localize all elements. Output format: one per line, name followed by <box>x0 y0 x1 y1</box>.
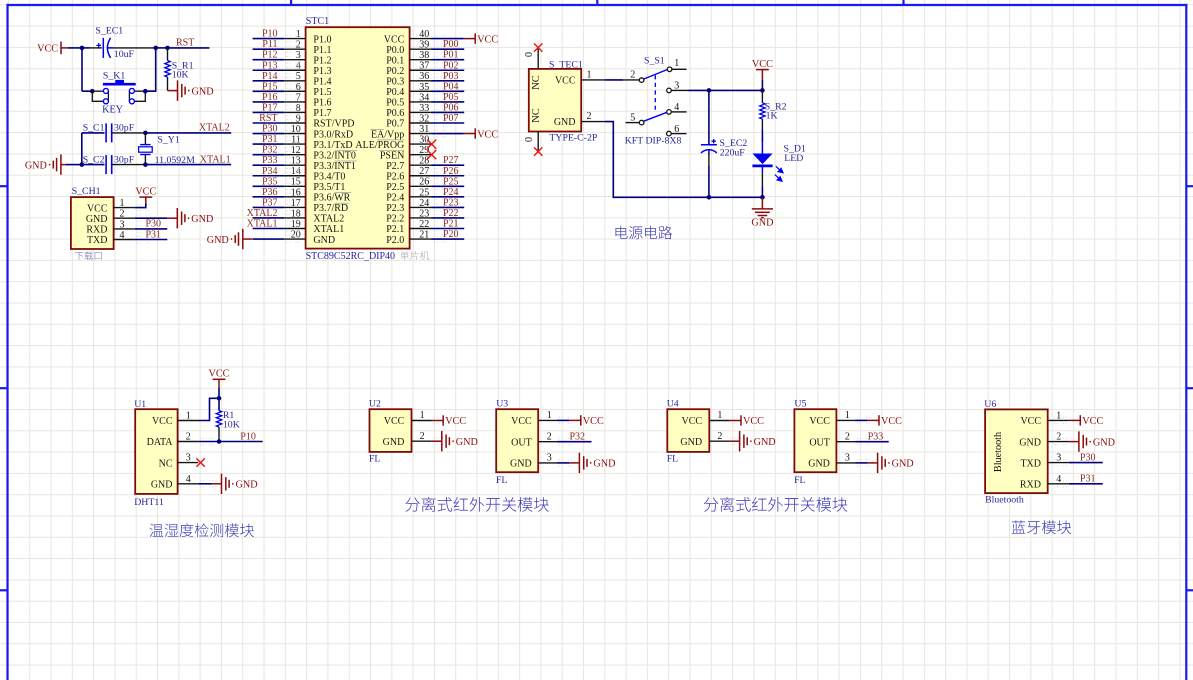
svg-text:VCC: VCC <box>511 416 532 427</box>
caption bluetooth module <box>1012 520 1072 534</box>
svg-text:1K: 1K <box>766 111 778 122</box>
svg-text:0: 0 <box>524 137 535 142</box>
svg-text:Bluetooth: Bluetooth <box>993 432 1004 472</box>
svg-text:XTAL1: XTAL1 <box>313 224 344 235</box>
svg-text:GND: GND <box>25 160 47 171</box>
mcu right wires nets P27-P20 <box>432 165 465 239</box>
svg-text:P34: P34 <box>262 166 278 177</box>
svg-text:P05: P05 <box>443 92 459 103</box>
wire net P30 (S_CH1) <box>135 228 168 230</box>
svg-text:RXD: RXD <box>1020 480 1041 491</box>
svg-text:GND: GND <box>593 459 615 470</box>
svg-text:TYPE-C-2P: TYPE-C-2P <box>549 133 597 144</box>
switch S_S1 KFT DIP-8X8 <box>623 67 688 136</box>
svg-text:VCC: VCC <box>384 416 405 427</box>
wire net XTAL1 <box>145 164 231 166</box>
svg-text:2: 2 <box>630 70 635 81</box>
svg-text:P17: P17 <box>262 102 278 113</box>
mcu net labels P27-P20 <box>443 155 459 240</box>
svg-text:VCC: VCC <box>682 416 703 427</box>
svg-text:VCC: VCC <box>37 43 58 54</box>
svg-text:XTAL1: XTAL1 <box>247 219 278 230</box>
svg-text:P0.2: P0.2 <box>386 66 404 77</box>
wire net P31 (U6 RXD) <box>1069 483 1103 485</box>
no connect X mcu pin30 <box>427 140 436 149</box>
connector S_TEC1 TYPE-C-2P body <box>529 69 581 132</box>
svg-text:2: 2 <box>587 111 592 122</box>
svg-text:P23: P23 <box>443 197 459 208</box>
svg-text:P1.2: P1.2 <box>313 55 331 66</box>
module U3 FL body <box>496 409 538 472</box>
caption temperature humidity module <box>149 523 254 537</box>
svg-text:XTAL2: XTAL2 <box>247 208 278 219</box>
svg-text:P32: P32 <box>262 145 278 156</box>
capacitor S_C2 30pF <box>106 155 112 174</box>
wire U5 pin1 to VCC <box>855 419 868 421</box>
wire S_R1 to ground <box>167 77 169 91</box>
svg-text:P14: P14 <box>262 71 278 82</box>
svg-text:KFT DIP-8X8: KFT DIP-8X8 <box>625 135 682 146</box>
svg-text:VCC: VCC <box>135 187 156 198</box>
svg-text:P3.2/INT0: P3.2/INT0 <box>313 150 356 161</box>
svg-text:S_K1: S_K1 <box>103 70 125 81</box>
ground GND (reset circuit) <box>168 80 190 100</box>
wire switch pin3 to VCC rail <box>688 89 762 91</box>
wire S_C2 to node XTAL1 <box>112 164 146 166</box>
caption infrared switch module 2 <box>704 497 848 512</box>
ground GND (power circuit) <box>752 197 773 217</box>
svg-text:FL: FL <box>794 475 805 486</box>
sensor U1 pin stubs <box>178 421 215 488</box>
wire S_TEC1 GND to bottom rail <box>605 122 763 198</box>
svg-text:RXD: RXD <box>86 225 107 236</box>
svg-text:VCC: VCC <box>555 75 576 86</box>
mcu STC1 right pin numbers 40-21 <box>419 29 429 240</box>
node C junction <box>165 46 170 51</box>
module U5 FL body <box>794 409 836 472</box>
ground GND (DHT11) <box>212 474 234 494</box>
wire GND to crystal junction <box>66 164 82 166</box>
node XTAL2 junction <box>143 131 148 136</box>
wire net P32 (U3 OUT) <box>557 441 592 443</box>
no connect X mcu pin29 <box>427 150 436 159</box>
wire S_TEC1 VCC to switch pin2 <box>605 79 623 81</box>
svg-text:GND: GND <box>808 459 830 470</box>
svg-text:P2.6: P2.6 <box>386 171 404 182</box>
svg-text:P01: P01 <box>443 50 459 61</box>
svg-text:P3.3/INT1: P3.3/INT1 <box>313 161 356 172</box>
crystal lower junction node <box>80 162 85 167</box>
svg-text:1: 1 <box>845 410 850 421</box>
wire junction A to capacitor S_EC1 <box>82 47 90 49</box>
svg-text:GND: GND <box>456 437 478 448</box>
module U2 pin stubs <box>412 417 449 444</box>
node R2 top junction <box>760 88 765 93</box>
svg-text:P2.7: P2.7 <box>386 161 404 172</box>
svg-text:P27: P27 <box>443 155 459 166</box>
wire junction A down to key <box>81 48 83 91</box>
capacitor S_EC1 10uF polarized <box>96 38 113 58</box>
svg-text:U2: U2 <box>369 398 381 409</box>
power port VCC (DHT11) <box>213 379 226 387</box>
wire key to node B riser <box>145 48 155 91</box>
svg-text:XTAL2: XTAL2 <box>199 123 230 134</box>
svg-text:GND: GND <box>236 480 258 491</box>
svg-text:VCC: VCC <box>752 59 773 70</box>
sensor U1 pin numbers 1-4 <box>186 411 191 485</box>
module U6 Bluetooth body <box>985 409 1048 493</box>
sensor U1 DHT11 body <box>135 409 177 494</box>
svg-text:NC: NC <box>531 75 542 90</box>
svg-text:2: 2 <box>547 432 552 443</box>
svg-text:P10: P10 <box>240 431 256 442</box>
wire VCC to R2 junction <box>761 80 763 91</box>
crystal S_Y1 11.0592M <box>139 133 153 165</box>
svg-text:GND: GND <box>754 437 776 448</box>
module U5 pin numbers 1-3 <box>845 410 850 464</box>
svg-text:2: 2 <box>845 432 850 443</box>
svg-text:P3.4/T0: P3.4/T0 <box>313 171 345 182</box>
svg-text:S_CH1: S_CH1 <box>72 186 101 197</box>
resistor R1 10K pullup <box>218 398 220 410</box>
svg-text:P31: P31 <box>1080 473 1096 484</box>
svg-text:P11: P11 <box>262 39 277 50</box>
svg-text:P1.0: P1.0 <box>313 34 331 45</box>
mcu STC1 body STC89C52RC_DIP40 <box>306 27 410 248</box>
svg-text:S_EC1: S_EC1 <box>95 26 123 37</box>
svg-text:P3.0/RxD: P3.0/RxD <box>313 129 353 140</box>
ground GND (U5) <box>868 453 890 473</box>
wire R1 to DATA net <box>218 427 220 442</box>
key right junction <box>143 89 148 94</box>
power port VCC (U6) <box>1069 415 1080 425</box>
connector S_TEC1 top NC pin <box>537 49 539 69</box>
svg-text:3: 3 <box>845 453 850 464</box>
svg-text:P2.4: P2.4 <box>386 193 404 204</box>
node EC2 bottom junction <box>707 195 712 200</box>
svg-text:LED: LED <box>784 153 803 164</box>
connector S_TEC1 bottom NC pin <box>537 132 539 151</box>
svg-text:GND: GND <box>383 437 405 448</box>
svg-text:VCC: VCC <box>87 203 108 214</box>
mcu STC1 left pin numbers 1-20 <box>291 29 301 240</box>
svg-text:S_C1: S_C1 <box>83 123 105 134</box>
svg-text:VCC: VCC <box>583 416 604 427</box>
svg-text:STC1: STC1 <box>306 16 329 27</box>
power port VCC (mcu pin31) <box>464 128 475 138</box>
ground GND (U6) <box>1069 431 1091 451</box>
node XTAL1 junction <box>143 162 148 167</box>
svg-text:P3.5/T1: P3.5/T1 <box>313 182 345 193</box>
connector S_CH1 pin stubs <box>114 204 151 242</box>
svg-text:P13: P13 <box>262 60 278 71</box>
module U3 pin names <box>510 416 532 470</box>
svg-text:P30: P30 <box>146 219 162 230</box>
svg-text:P32: P32 <box>570 431 586 442</box>
module U6 pin numbers 1-4 <box>1056 410 1061 484</box>
svg-text:2: 2 <box>717 431 722 442</box>
push button S_K1 KEY <box>92 80 145 104</box>
wire S_EC1 to node B <box>114 47 156 49</box>
power port VCC (mcu pin40) <box>464 33 475 43</box>
svg-text:VCC: VCC <box>743 416 764 427</box>
svg-text:GND: GND <box>151 480 173 491</box>
svg-text:U4: U4 <box>667 398 679 409</box>
wire riser to XTAL2 row <box>81 133 83 165</box>
svg-text:P0.4: P0.4 <box>386 87 404 98</box>
capacitor S_EC2 220uF polarized <box>701 139 717 155</box>
power port VCC (reset circuit) <box>61 42 68 55</box>
svg-text:P15: P15 <box>262 81 278 92</box>
svg-text:DHT11: DHT11 <box>134 497 164 508</box>
svg-text:P30: P30 <box>262 124 278 135</box>
wire to key left contact <box>82 90 92 92</box>
mcu right wires nets P00-P07 <box>432 49 465 123</box>
svg-text:TXD: TXD <box>1020 458 1041 469</box>
svg-text:1: 1 <box>674 58 679 69</box>
resistor S_R1 10K <box>165 61 170 78</box>
mcu STC1 left pin stubs <box>284 35 305 242</box>
wire junction to capacitor S_C2 <box>82 164 105 166</box>
sensor U1 pin names <box>147 416 174 490</box>
svg-text:P1.3: P1.3 <box>313 66 331 77</box>
mcu STC1 right pin stubs <box>410 35 448 242</box>
no connect X U1 pin3 <box>196 458 204 466</box>
svg-text:GND: GND <box>680 437 702 448</box>
svg-text:1: 1 <box>547 410 552 421</box>
svg-text:P20: P20 <box>443 229 459 240</box>
node DATA junction <box>217 439 222 444</box>
mcu STC1 right pin names <box>355 34 404 245</box>
wire node C to net RST <box>168 47 210 49</box>
svg-text:GND: GND <box>751 218 773 229</box>
node LED bottom junction <box>760 195 765 200</box>
svg-text:GND: GND <box>313 235 335 246</box>
svg-text:P21: P21 <box>443 219 459 230</box>
svg-text:P0.7: P0.7 <box>386 119 404 130</box>
ground GND (U2) <box>432 431 454 451</box>
ground GND (mcu pin20) <box>231 229 253 249</box>
svg-text:10uF: 10uF <box>114 49 135 60</box>
module U3 pin stubs <box>538 417 573 466</box>
wire EC2 bottom to rail <box>708 153 710 166</box>
power port VCC (S_CH1) <box>139 197 152 204</box>
svg-text:P07: P07 <box>443 113 459 124</box>
svg-text:VCC: VCC <box>384 34 405 45</box>
svg-text:VCC: VCC <box>1082 416 1103 427</box>
ground GND (crystal circuit) <box>49 154 67 174</box>
ground GND (U4) <box>730 431 752 451</box>
wire net P10 (DHT11 DATA) <box>198 441 263 443</box>
wire LED to bottom rail <box>761 173 763 187</box>
svg-text:P10: P10 <box>262 29 278 40</box>
power port VCC (power circuit) <box>756 70 769 80</box>
wire node B to node C <box>156 47 168 49</box>
svg-text:VCC: VCC <box>1020 416 1041 427</box>
wire to capacitor S_C1 <box>82 132 105 134</box>
svg-text:GND: GND <box>892 459 914 470</box>
svg-text:P22: P22 <box>443 208 459 219</box>
module U6 pin names <box>1019 416 1041 490</box>
svg-text:P0.0: P0.0 <box>386 45 404 56</box>
svg-text:GND: GND <box>1019 437 1041 448</box>
module U5 pin names <box>808 416 830 470</box>
connector S_CH1 pin numbers 1-4 <box>120 198 125 241</box>
no connect X S_TEC1 bottom <box>534 147 542 155</box>
svg-text:P12: P12 <box>262 50 278 61</box>
connector S_TEC1 pin stubs <box>581 79 605 81</box>
key left junction <box>90 89 95 94</box>
resistor S_R2 1K <box>760 103 765 119</box>
module U3 pin numbers 1-3 <box>547 410 552 464</box>
svg-text:P2.2: P2.2 <box>386 214 404 225</box>
caption microcontroller <box>400 251 429 260</box>
wire S_R2 to LED <box>761 119 763 130</box>
svg-text:P1.6: P1.6 <box>313 98 331 109</box>
module U2 FL body <box>370 409 412 452</box>
module U5 pin stubs <box>836 417 871 466</box>
svg-text:P04: P04 <box>443 81 459 92</box>
svg-text:1: 1 <box>587 70 592 81</box>
svg-text:P3.1/TxD: P3.1/TxD <box>313 140 352 151</box>
svg-text:S_C2: S_C2 <box>83 155 105 166</box>
svg-text:TXD: TXD <box>87 235 108 246</box>
svg-text:1: 1 <box>420 410 425 421</box>
svg-text:DATA: DATA <box>147 437 174 448</box>
svg-text:5: 5 <box>630 112 635 123</box>
node R1 top junction <box>217 396 222 401</box>
svg-text:NC: NC <box>159 458 173 469</box>
wire mcu pin31 EA to VCC <box>432 133 464 135</box>
wire EC2 branch down <box>708 90 710 144</box>
module U4 FL body <box>667 409 709 452</box>
connector S_TEC1 pin names NC NC VCC GND <box>531 75 542 123</box>
connector S_CH1 pin names <box>86 203 108 246</box>
svg-text:VCC: VCC <box>209 369 230 380</box>
svg-text:KEY: KEY <box>102 104 124 115</box>
svg-text:3: 3 <box>674 81 679 92</box>
node B junction <box>153 46 158 51</box>
svg-text:VCC: VCC <box>477 34 498 45</box>
svg-text:VCC: VCC <box>881 416 902 427</box>
svg-text:220uF: 220uF <box>720 147 746 158</box>
wire net XTAL2 <box>145 132 231 134</box>
wire net P31 (S_CH1) <box>135 239 168 241</box>
wire net P30 (U6 TXD) <box>1069 462 1103 464</box>
svg-text:P1.1: P1.1 <box>313 45 331 56</box>
svg-text:P26: P26 <box>443 166 459 177</box>
wire mcu pin20 GND <box>253 238 284 240</box>
svg-text:P03: P03 <box>443 71 459 82</box>
svg-text:U3: U3 <box>496 398 508 409</box>
svg-text:GND: GND <box>207 235 229 246</box>
svg-text:P31: P31 <box>146 229 162 240</box>
svg-text:OUT: OUT <box>809 437 830 448</box>
svg-text:4: 4 <box>674 102 679 113</box>
svg-text:NC: NC <box>531 108 542 123</box>
mcu STC1 left pin names <box>313 34 356 245</box>
svg-text:P0.3: P0.3 <box>386 77 404 88</box>
svg-text:XTAL2: XTAL2 <box>313 214 344 225</box>
svg-text:S_S1: S_S1 <box>644 55 665 66</box>
caption power supply circuit <box>615 226 672 239</box>
node EC2 top junction <box>707 88 712 93</box>
power port VCC (U5) <box>868 415 879 425</box>
svg-text:P0.1: P0.1 <box>386 55 404 66</box>
svg-text:U5: U5 <box>794 398 806 409</box>
svg-text:P2.1: P2.1 <box>386 224 404 235</box>
wire pin1 to VCC port <box>135 203 146 208</box>
svg-text:P02: P02 <box>443 60 459 71</box>
svg-text:P16: P16 <box>262 92 278 103</box>
svg-text:GND: GND <box>86 214 108 225</box>
svg-text:STC89C52RC_DIP40: STC89C52RC_DIP40 <box>306 251 395 262</box>
svg-text:VCC: VCC <box>477 129 498 140</box>
svg-text:GND: GND <box>510 459 532 470</box>
capacitor S_C1 30pF <box>106 123 112 142</box>
svg-text:P3.6/WR: P3.6/WR <box>313 193 350 204</box>
resistor S_R2 top lead <box>761 90 763 103</box>
caption download port <box>75 251 102 260</box>
svg-text:P1.7: P1.7 <box>313 108 331 119</box>
svg-text:3: 3 <box>547 453 552 464</box>
module U2 pin names <box>383 416 405 448</box>
svg-text:10K: 10K <box>223 419 240 430</box>
svg-text:GND: GND <box>1093 437 1115 448</box>
no connect X S_TEC1 top <box>534 43 542 51</box>
ground GND (U3) <box>569 453 591 473</box>
ground GND (S_CH1) <box>167 208 189 228</box>
wire U3 pin1 to VCC <box>557 419 570 421</box>
svg-text:P37: P37 <box>262 197 278 208</box>
svg-text:P2.0: P2.0 <box>386 235 404 246</box>
caption infrared switch module 1 <box>405 497 549 512</box>
svg-text:2: 2 <box>420 431 425 442</box>
svg-text:RST: RST <box>176 38 194 49</box>
module U4 pin names <box>680 416 702 448</box>
svg-text:VCC: VCC <box>152 416 173 427</box>
svg-text:10K: 10K <box>172 70 189 81</box>
wire VCC to R1 junction <box>218 387 220 398</box>
svg-text:P1.4: P1.4 <box>313 77 331 88</box>
svg-text:30pF: 30pF <box>114 123 135 134</box>
module U4 pin stubs <box>709 417 746 444</box>
svg-text:P35: P35 <box>262 176 278 187</box>
wire junction to U1 pin1 <box>201 398 219 420</box>
svg-text:P31: P31 <box>262 134 278 145</box>
svg-text:P33: P33 <box>262 155 278 166</box>
node A junction <box>80 46 85 51</box>
power port VCC (U4) <box>730 415 741 425</box>
mcu left wires nets P10-P17 RST P30-P37 XTAL1 XTAL2 <box>253 39 285 229</box>
module U2 pin numbers 1-2 <box>420 410 425 442</box>
wire VCC to junction A <box>68 47 82 49</box>
wire mcu pin40 to VCC <box>432 38 464 40</box>
svg-text:FL: FL <box>496 475 507 486</box>
svg-text:GND: GND <box>191 214 213 225</box>
resistor S_R1 top lead <box>167 48 169 61</box>
svg-text:P0.5: P0.5 <box>386 98 404 109</box>
svg-text:FL: FL <box>369 453 380 464</box>
svg-text:VCC: VCC <box>445 416 466 427</box>
power port VCC (U2) <box>432 415 443 425</box>
svg-text:RST/VPD: RST/VPD <box>313 119 354 130</box>
svg-text:6: 6 <box>674 124 679 135</box>
svg-text:U1: U1 <box>134 399 146 410</box>
svg-text:P25: P25 <box>443 176 459 187</box>
power port VCC (U3) <box>569 415 580 425</box>
svg-text:Bluetooth: Bluetooth <box>985 494 1024 505</box>
